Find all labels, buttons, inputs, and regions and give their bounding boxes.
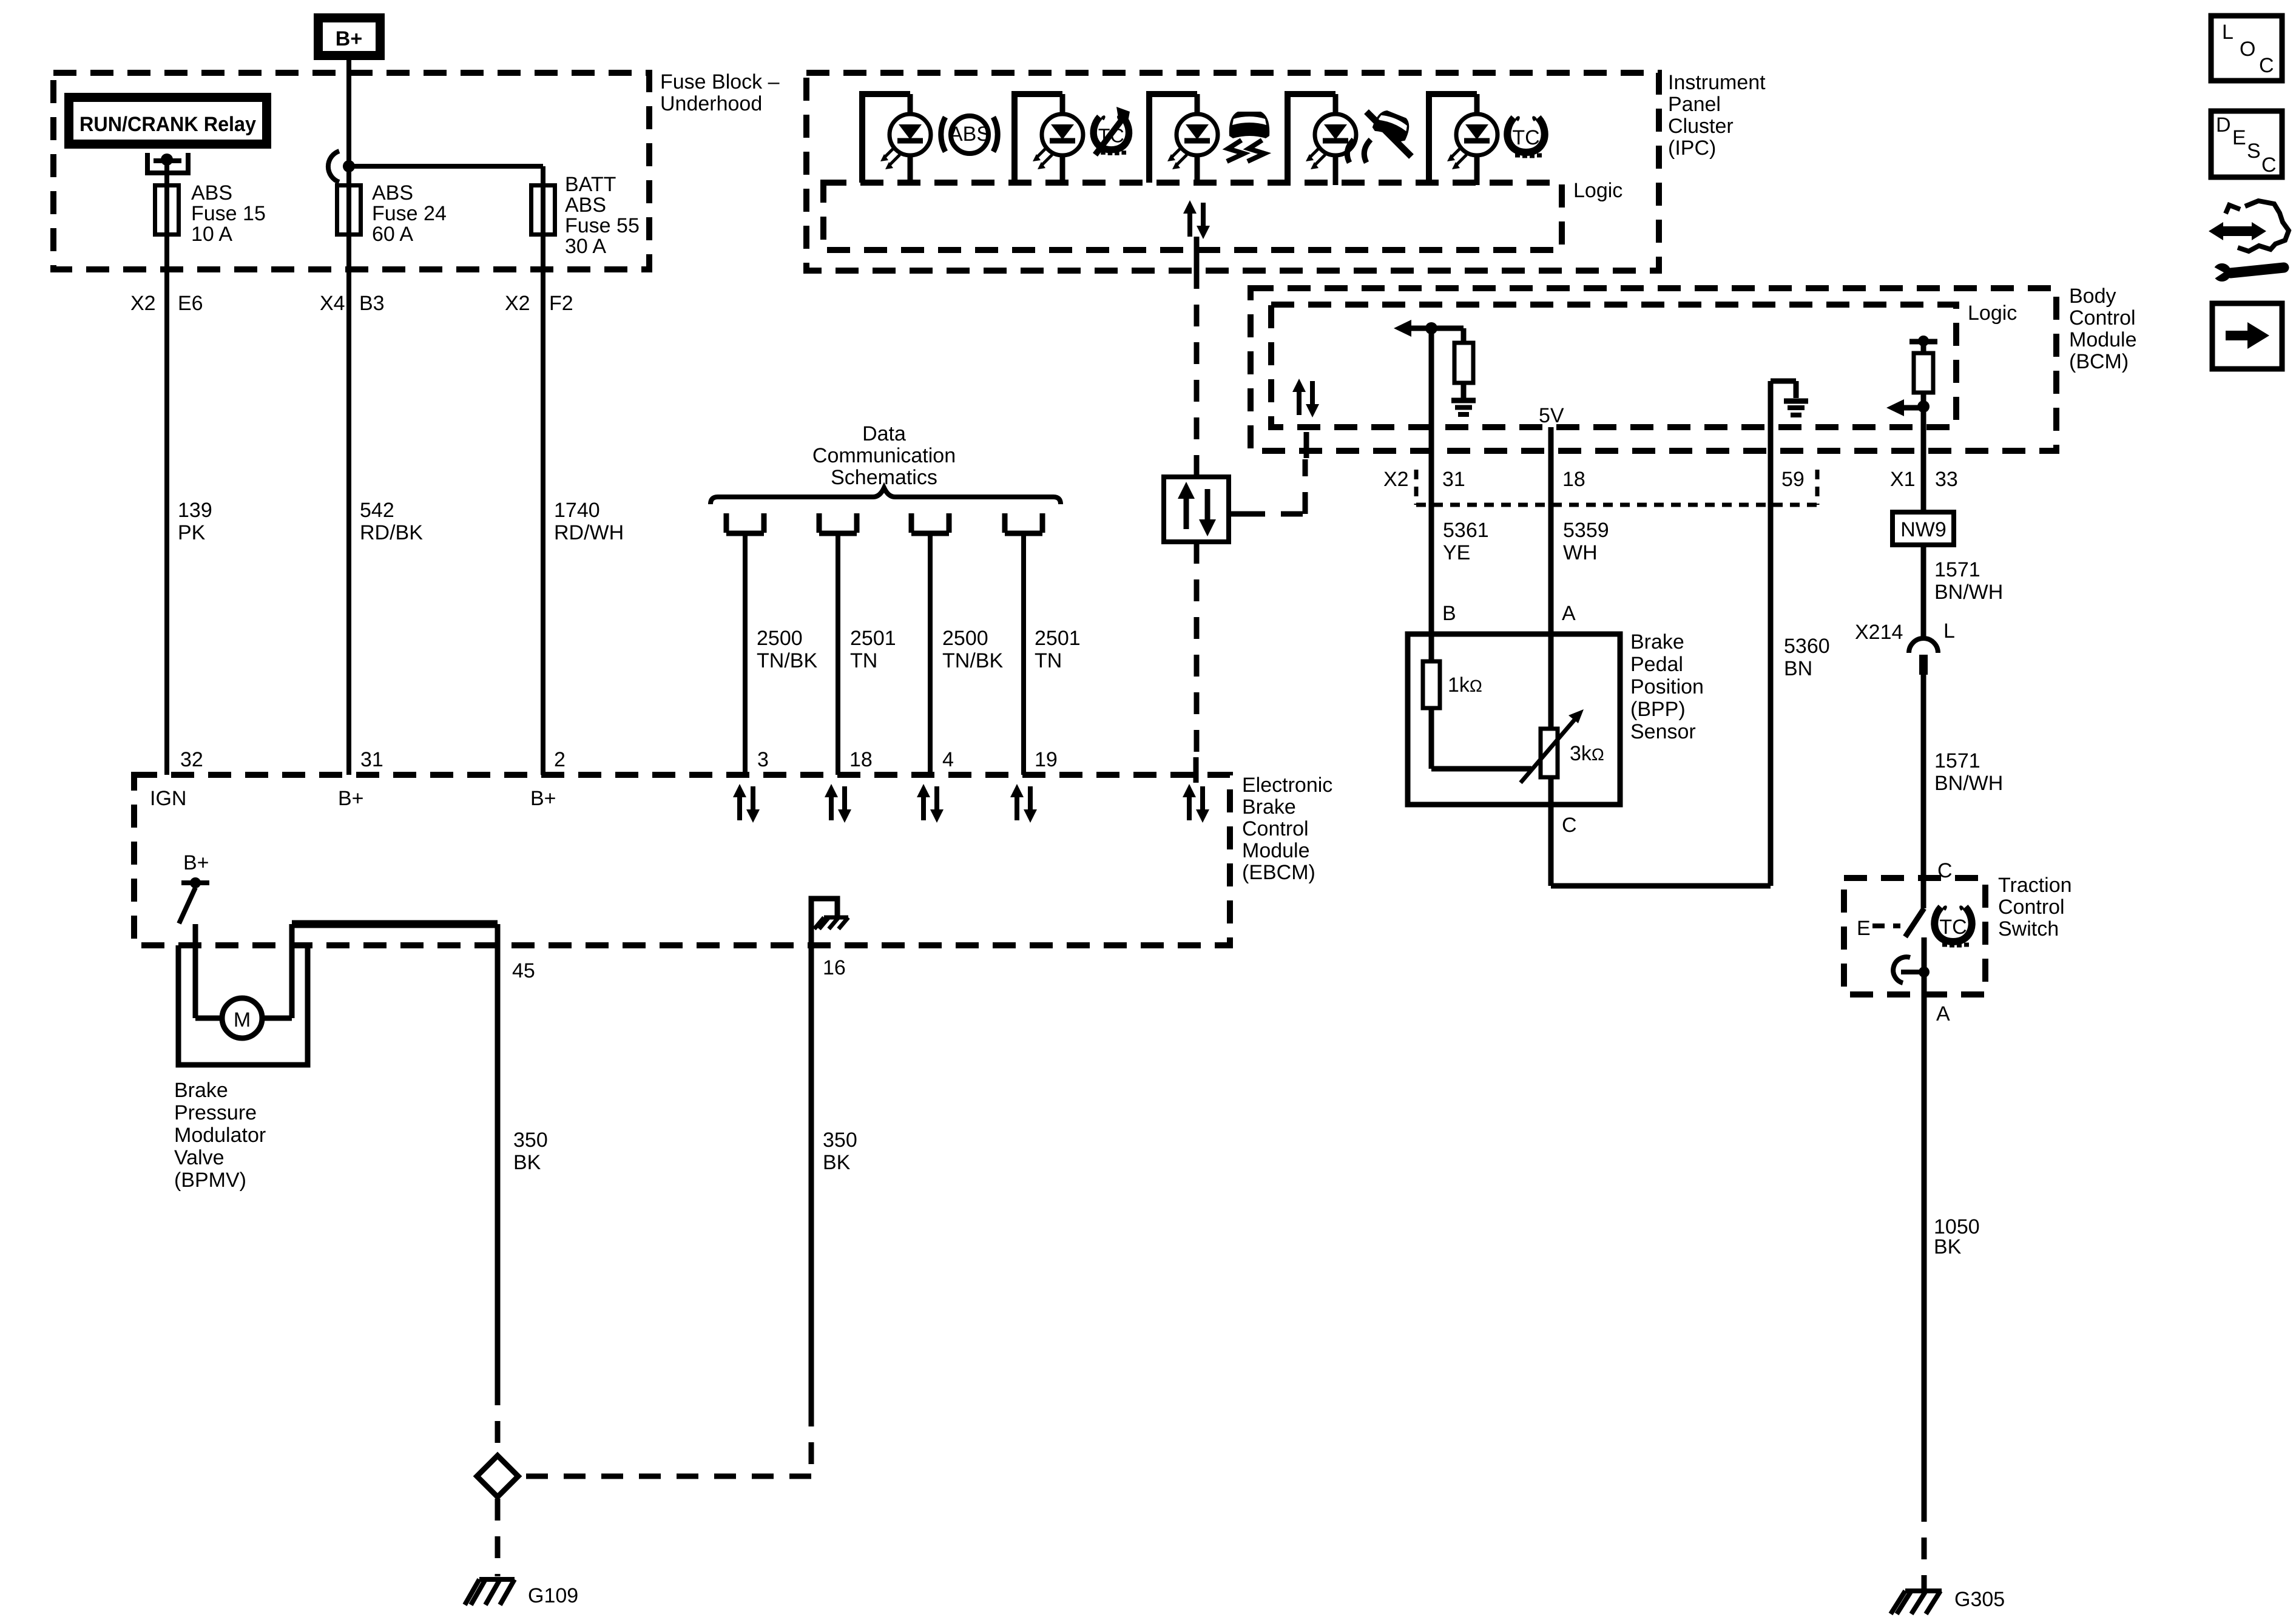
svg-text:M: M	[234, 1008, 251, 1031]
svg-text:X1: X1	[1890, 468, 1916, 491]
svg-text:31: 31	[360, 748, 383, 771]
svg-text:5V: 5V	[1539, 404, 1564, 427]
svg-text:ABS: ABS	[949, 123, 990, 146]
svg-text:3: 3	[757, 748, 769, 771]
svg-text:31: 31	[1442, 468, 1465, 491]
svg-text:E: E	[2232, 126, 2246, 149]
svg-text:E: E	[1857, 917, 1871, 940]
svg-text:X4: X4	[320, 292, 345, 315]
svg-text:Logic: Logic	[1573, 179, 1622, 202]
svg-text:G109: G109	[528, 1584, 578, 1607]
svg-text:B3: B3	[359, 292, 385, 315]
svg-text:O: O	[2240, 38, 2255, 61]
svg-text:B+: B+	[530, 787, 556, 810]
svg-text:X2: X2	[505, 292, 530, 315]
svg-text:D: D	[2216, 113, 2231, 137]
svg-text:A: A	[1562, 602, 1576, 625]
svg-text:X2: X2	[1383, 468, 1409, 491]
svg-text:B+: B+	[336, 27, 362, 50]
svg-text:C: C	[1562, 814, 1577, 837]
svg-text:1kΩ: 1kΩ	[1448, 673, 1482, 697]
svg-text:B+: B+	[338, 787, 364, 810]
svg-text:32: 32	[180, 748, 203, 771]
svg-text:L: L	[1943, 619, 1955, 643]
svg-text:X214: X214	[1855, 621, 1903, 644]
svg-text:Logic: Logic	[1968, 302, 2017, 325]
svg-text:19: 19	[1035, 748, 1058, 771]
svg-text:E6: E6	[178, 292, 203, 315]
svg-text:S: S	[2247, 140, 2261, 163]
svg-text:C: C	[2259, 54, 2274, 77]
svg-text:G305: G305	[1954, 1588, 2005, 1611]
svg-text:3kΩ: 3kΩ	[1570, 742, 1604, 765]
svg-text:45: 45	[512, 959, 535, 982]
svg-text:NW9: NW9	[1900, 518, 1947, 541]
svg-text:X2: X2	[130, 292, 156, 315]
svg-text:F2: F2	[549, 292, 573, 315]
svg-text:18: 18	[849, 748, 873, 771]
svg-text:IGN: IGN	[150, 787, 186, 810]
svg-text:18: 18	[1562, 468, 1585, 491]
svg-text:C: C	[2261, 154, 2277, 177]
svg-text:2: 2	[554, 748, 566, 771]
svg-text:A: A	[1936, 1002, 1950, 1025]
svg-text:B+: B+	[183, 851, 209, 874]
svg-text:4: 4	[942, 748, 954, 771]
svg-text:RUN/CRANK Relay: RUN/CRANK Relay	[79, 113, 256, 136]
svg-text:L: L	[2222, 21, 2234, 44]
svg-text:33: 33	[1935, 468, 1958, 491]
svg-text:B: B	[1442, 602, 1456, 625]
svg-text:59: 59	[1781, 468, 1805, 491]
svg-text:16: 16	[823, 956, 846, 979]
svg-text:Fuse Block –Underhood: Fuse Block –Underhood	[660, 70, 780, 115]
